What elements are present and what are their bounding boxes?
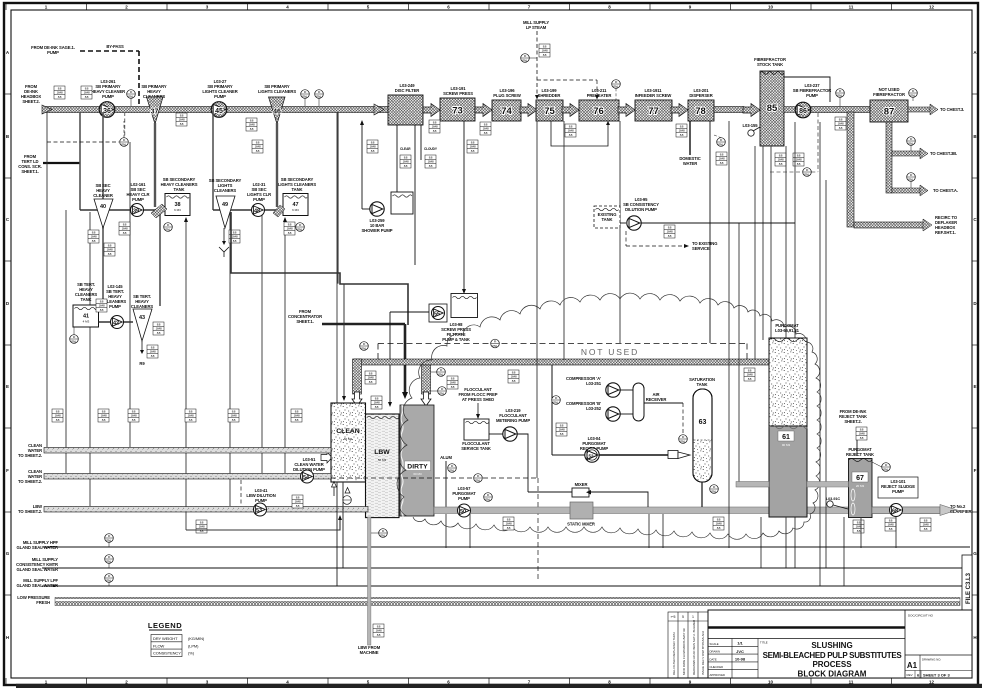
gauge LS tank47 xyxy=(296,223,305,232)
bottom scan bar xyxy=(16,684,982,688)
svg-text:CLEANERS: CLEANERS xyxy=(214,188,237,193)
svg-text:10: 10 xyxy=(768,5,774,10)
svg-text:SERVICE: SERVICE xyxy=(692,246,710,251)
svg-text:JVC: JVC xyxy=(736,649,744,654)
svg-text:68: 68 xyxy=(892,509,898,515)
svg-text:45: 45 xyxy=(215,108,223,115)
svg-text:METERING PUMP: METERING PUMP xyxy=(496,418,530,423)
svg-text:STATIC MIXER: STATIC MIXER xyxy=(567,522,595,527)
svg-text:TO CHEST.A.: TO CHEST.A. xyxy=(933,188,958,193)
svg-text:DIRTY: DIRTY xyxy=(407,464,428,471)
svg-text:75: 75 xyxy=(544,106,555,117)
wire pump 55 suction xyxy=(390,311,429,313)
svg-text:PUMP & TANK: PUMP & TANK xyxy=(442,337,470,342)
svg-text:50 M3: 50 M3 xyxy=(378,458,387,462)
svg-text:L03-155: L03-155 xyxy=(743,123,759,128)
RIGHT xyxy=(397,57,971,586)
svg-text:L03-91C: L03-91C xyxy=(826,497,840,501)
svg-text:LBW: LBW xyxy=(374,449,390,456)
svg-text:L03-251: L03-251 xyxy=(586,381,602,386)
gauge LS tank38 xyxy=(164,223,173,232)
svg-text:TANK: TANK xyxy=(81,297,92,302)
wire 78 to stock tank xyxy=(714,107,744,113)
svg-text:REJECT TANK: REJECT TANK xyxy=(846,452,874,457)
svg-text:TANK: TANK xyxy=(292,187,303,192)
wire vertical drops from main line xyxy=(80,112,277,306)
MIDDLE xyxy=(231,112,940,582)
wire arrow into CLEAN left xyxy=(321,452,332,463)
svg-text:63: 63 xyxy=(699,419,707,426)
gauge HS above band xyxy=(360,342,369,351)
svg-text:SERVICE TANK: SERVICE TANK xyxy=(461,446,491,451)
svg-text:PUMP: PUMP xyxy=(132,197,144,202)
svg-text:↩5: ↩5 xyxy=(671,615,676,619)
svg-text:53: 53 xyxy=(256,508,262,514)
data boxes cleaners xyxy=(88,230,99,243)
wire hatched drop to CLEAN xyxy=(353,359,362,394)
svg-text:G: G xyxy=(973,551,977,556)
svg-text:11: 11 xyxy=(849,5,854,10)
svg-text:1/1: 1/1 xyxy=(737,641,743,646)
wire gray stub 61 to 67 xyxy=(807,482,849,488)
svg-text:60 M3: 60 M3 xyxy=(413,472,422,476)
pump L03-259 10 BAR SHOWER PUMP xyxy=(370,202,384,216)
label box L03-101 REJECT SLUDGE PUMP xyxy=(878,477,918,498)
svg-text:6 M3: 6 M3 xyxy=(174,208,181,212)
svg-text:LIGHTS CLEANERS: LIGHTS CLEANERS xyxy=(258,89,296,94)
wire 87 drop and branches xyxy=(886,122,892,193)
svg-text:SHREDDER: SHREDDER xyxy=(538,93,561,98)
svg-text:85: 85 xyxy=(767,103,778,114)
svg-text:TO SHEET.2.: TO SHEET.2. xyxy=(18,453,42,458)
svg-text:40: 40 xyxy=(100,204,106,210)
svg-text:PUMP: PUMP xyxy=(109,304,121,309)
tank shower pump suction xyxy=(391,192,413,214)
svg-text:CLEANER: CLEANER xyxy=(93,193,113,198)
svg-text:DILUTION PUMP: DILUTION PUMP xyxy=(625,207,657,212)
svg-text:78: 78 xyxy=(695,106,706,117)
svg-text:L03-65,91,81: L03-65,91,81 xyxy=(775,328,799,333)
pump 68 xyxy=(890,504,903,517)
svg-text:67: 67 xyxy=(856,475,864,482)
svg-text:REF.SHT.1.: REF.SHT.1. xyxy=(935,230,956,235)
svg-text:11: 11 xyxy=(849,680,854,685)
wire up arrows into CLEAN bottom xyxy=(332,482,337,488)
gauge PI xyxy=(127,90,136,99)
tank EXISTING TANK xyxy=(594,206,620,228)
LBW from machine line xyxy=(368,517,371,645)
svg-text:FLOW: FLOW xyxy=(153,643,164,648)
svg-text:PUMP: PUMP xyxy=(47,50,59,55)
svg-text:DRAWN: DRAWN xyxy=(710,650,720,654)
gauge disperser xyxy=(717,138,726,147)
wire pump36 drain dashed xyxy=(47,141,119,143)
TITLEBLOCK xyxy=(668,610,972,679)
wire arrow 77-78 xyxy=(671,104,688,117)
svg-text:GLAND SEAL WATER: GLAND SEAL WATER xyxy=(16,583,58,588)
svg-text:RECEIVER: RECEIVER xyxy=(646,397,667,402)
svg-text:LP STEAM: LP STEAM xyxy=(526,25,547,30)
svg-text:AT PRESS SHED: AT PRESS SHED xyxy=(462,397,494,402)
svg-text:CLOUDY: CLOUDY xyxy=(424,147,438,151)
MAINROW xyxy=(21,20,760,166)
tank filtrate xyxy=(451,294,478,318)
svg-text:A1: A1 xyxy=(907,661,918,670)
wire arrow 74-75 xyxy=(520,104,537,117)
svg-text:SHOWER PUMP: SHOWER PUMP xyxy=(361,228,392,233)
wire hatched drop to DIRTY xyxy=(422,365,431,394)
LBW FROM MACHINE xyxy=(373,624,384,637)
svg-text:R9: R9 xyxy=(139,361,145,366)
tank LBW xyxy=(366,414,400,518)
svg-text:(LPM): (LPM) xyxy=(188,643,199,648)
svg-text:PUMP: PUMP xyxy=(253,197,265,202)
svg-text:37: 37 xyxy=(151,109,159,116)
wire return arrow into tank 38 xyxy=(184,217,188,222)
svg-text:F: F xyxy=(6,468,9,473)
svg-text:LEGEND: LEGEND xyxy=(148,621,182,630)
svg-text:6 M3: 6 M3 xyxy=(292,208,299,212)
cloud boundary xyxy=(397,293,821,539)
wire dashed sample line xyxy=(331,477,538,479)
svg-text:76: 76 xyxy=(593,106,604,117)
wire hatched jog into tank 47 xyxy=(273,205,285,217)
svg-text:TANK: TANK xyxy=(697,382,708,387)
svg-text:42: 42 xyxy=(113,321,119,327)
wire arrow 73-74 xyxy=(475,104,492,117)
svg-text:43: 43 xyxy=(139,315,145,321)
svg-text:FIBREFRACTOR: FIBREFRACTOR xyxy=(873,92,905,97)
svg-text:MIXER: MIXER xyxy=(575,482,588,487)
svg-text:MACHINE: MACHINE xyxy=(360,650,379,655)
svg-text:20 M3: 20 M3 xyxy=(856,484,865,488)
wire verticals below tanks xyxy=(336,482,338,586)
svg-text:PREHEATER: PREHEATER xyxy=(587,93,612,98)
svg-text:APPROVED: APPROVED xyxy=(710,673,726,677)
gauges flocculant area xyxy=(437,368,446,377)
svg-text:52: 52 xyxy=(588,454,594,459)
svg-text:77: 77 xyxy=(648,106,659,117)
svg-text:73: 73 xyxy=(452,106,463,117)
wire gray stub into purgomat xyxy=(736,482,769,488)
svg-text:12: 12 xyxy=(929,5,935,10)
revision columns xyxy=(668,612,708,678)
FILE C3.L3 vertical xyxy=(962,555,972,611)
svg-text:74: 74 xyxy=(501,106,512,117)
svg-text:SCREW PRESS: SCREW PRESS xyxy=(443,91,473,96)
svg-text:SLUSHING: SLUSHING xyxy=(811,641,852,650)
gauge pair after 46 xyxy=(301,90,310,99)
tank FLOCCULANT SERVICE TANK xyxy=(464,419,489,440)
svg-text:CONSISTENCY: CONSISTENCY xyxy=(153,651,181,656)
svg-text:46: 46 xyxy=(273,109,281,116)
svg-text:5: 5 xyxy=(682,615,684,619)
svg-text:DEL FILTER REPLACED THRU: DEL FILTER REPLACED THRU xyxy=(672,632,676,675)
svg-text:TO SHEET.2.: TO SHEET.2. xyxy=(18,479,42,484)
wire screw press 73 drop to filtrate tank xyxy=(463,121,465,291)
static mixer xyxy=(570,502,593,519)
svg-text:61: 61 xyxy=(782,434,790,441)
svg-text:PUMP: PUMP xyxy=(214,94,226,99)
svg-text:BY-PASS: BY-PASS xyxy=(106,44,124,49)
svg-text:55: 55 xyxy=(434,312,440,318)
svg-text:G: G xyxy=(6,551,10,556)
pump L03-98 screw press filtrate (55) xyxy=(429,304,447,322)
svg-text:10: 10 xyxy=(768,680,774,685)
svg-text:PUMP: PUMP xyxy=(255,498,267,503)
svg-text:PUMP: PUMP xyxy=(806,93,818,98)
svg-text:MOD DWG FLOW MODS /MAY 99: MOD DWG FLOW MODS /MAY 99 xyxy=(682,628,686,675)
wire TO EXISTING SERVICE dashed xyxy=(625,231,627,246)
svg-text:FILE C3.L3: FILE C3.L3 xyxy=(966,572,972,604)
wire hatched distribution band xyxy=(354,359,770,365)
svg-text:4 M3: 4 M3 xyxy=(83,320,90,324)
svg-text:CHECKED: CHECKED xyxy=(710,665,724,669)
BOTTOM xyxy=(16,299,972,657)
wire secondary lights row xyxy=(213,209,283,211)
svg-text:12: 12 xyxy=(929,680,935,685)
svg-text:DRAWING NO.: DRAWING NO. xyxy=(922,658,941,662)
drain below 49 xyxy=(223,228,225,243)
svg-text:50: 50 xyxy=(460,509,466,515)
svg-text:CLARIFIER: CLARIFIER xyxy=(950,509,972,514)
svg-text:ISSUE DEL'V DSP BYPASS ADJ: ISSUE DEL'V DSP BYPASS ADJ xyxy=(701,630,705,675)
svg-text:SHEET.2.: SHEET.2. xyxy=(844,419,861,424)
wire recirc to deflaker xyxy=(854,222,924,228)
tank DIRTY xyxy=(400,405,434,516)
svg-text:TANK: TANK xyxy=(174,187,185,192)
svg-text:PUMP: PUMP xyxy=(892,489,904,494)
tank CLEAN xyxy=(331,403,366,482)
svg-text:SHEET.2.: SHEET.2. xyxy=(22,99,39,104)
wire thin feeds into CLEAN top xyxy=(343,284,345,399)
svg-text:86: 86 xyxy=(799,108,807,115)
svg-text:60 M3: 60 M3 xyxy=(344,437,353,441)
svg-text:10-98: 10-98 xyxy=(735,657,746,662)
data boxes near tanks xyxy=(365,371,376,384)
wire dashed drain 85 xyxy=(770,171,803,173)
svg-text:GLAND SEAL WATER: GLAND SEAL WATER xyxy=(16,545,58,550)
svg-text:DISPERSER: DISPERSER xyxy=(689,93,712,98)
svg-text:F: F xyxy=(974,468,977,473)
svg-text:E: E xyxy=(6,384,9,389)
svg-text:CLEAR: CLEAR xyxy=(400,147,411,151)
svg-text:PROCESS: PROCESS xyxy=(812,660,852,669)
svg-text:39: 39 xyxy=(133,209,139,215)
svg-text:ALUM: ALUM xyxy=(440,455,452,460)
svg-text:TO CHEST.3.: TO CHEST.3. xyxy=(940,107,964,112)
wire shredder bottom loop to preheater xyxy=(551,121,608,146)
svg-text:SHEET.1.: SHEET.1. xyxy=(21,169,38,174)
wire hatched jog into tank 38 xyxy=(151,204,167,218)
wire below 43 to R9 xyxy=(141,341,143,352)
svg-text:NOT USED: NOT USED xyxy=(581,347,639,357)
svg-text:87: 87 xyxy=(884,107,895,118)
arrow into disc filter xyxy=(374,104,384,115)
data boxes header row xyxy=(52,409,63,422)
svg-text:E: E xyxy=(973,384,976,389)
gauge preheater TS xyxy=(612,80,621,89)
svg-text:(%): (%) xyxy=(188,651,195,656)
wire main pulp flow line xyxy=(45,107,388,113)
svg-text:SEMI-BLEACHED PULP SUBSTITUTES: SEMI-BLEACHED PULP SUBSTITUTES xyxy=(763,651,903,660)
svg-text:TANK: TANK xyxy=(602,217,613,222)
svg-text:(KG/MIN): (KG/MIN) xyxy=(188,636,205,641)
wire long verticals below stock tank xyxy=(537,121,826,586)
svg-text:FRESH: FRESH xyxy=(36,600,50,605)
svg-text:INFEEDER SCREW: INFEEDER SCREW xyxy=(635,93,672,98)
wire arrow 75-76 xyxy=(562,104,579,117)
wire arrow disc filter to 73 xyxy=(423,104,440,117)
wire sat tank bottom xyxy=(701,482,703,507)
svg-text:SCALE: SCALE xyxy=(710,642,719,646)
CLEANERS xyxy=(18,112,478,586)
svg-text:SHEET 3 OF 3: SHEET 3 OF 3 xyxy=(923,672,950,677)
svg-text:BLOCK DIAGRAM: BLOCK DIAGRAM xyxy=(798,670,867,679)
wire gray pipe to clarifier xyxy=(872,507,940,514)
wire tank top recirc xyxy=(784,77,830,102)
title block internal lines xyxy=(708,626,905,629)
wire secondary heavy row xyxy=(80,209,165,211)
svg-text:WATER: WATER xyxy=(683,161,697,166)
svg-text:PUMP: PUMP xyxy=(102,94,114,99)
svg-text:49: 49 xyxy=(222,202,228,208)
svg-text:DRY WEIGHT: DRY WEIGHT xyxy=(153,636,178,641)
svg-text:L03-252: L03-252 xyxy=(586,406,602,411)
svg-text:REDRAWN ACAD WAS SHT.2. BULMER: REDRAWN ACAD WAS SHT.2. BULMER xyxy=(692,619,696,675)
svg-text:TITLE: TITLE xyxy=(760,641,768,645)
wire main gray pipe DIRTY to clarifier xyxy=(434,507,940,514)
data boxes along main row xyxy=(54,86,65,99)
svg-text:DATE: DATE xyxy=(710,657,717,661)
wire TO CHEST.3 xyxy=(908,107,930,112)
svg-text:36: 36 xyxy=(103,108,111,115)
svg-text:CLEANERS: CLEANERS xyxy=(131,304,154,309)
svg-text:SHEET.1.: SHEET.1. xyxy=(296,319,313,324)
air receiver xyxy=(633,383,644,421)
svg-text:TO SHEET.2.: TO SHEET.2. xyxy=(18,509,42,514)
svg-text:DISC FILTER: DISC FILTER xyxy=(395,88,419,93)
wire NOT USED dashed boundary xyxy=(378,343,747,345)
wire LBW bottom connector xyxy=(186,518,340,530)
wire arrow 76-77 xyxy=(618,104,635,117)
svg-text:PLUG SCREW: PLUG SCREW xyxy=(493,93,521,98)
wire hatched vertical to recirc xyxy=(847,112,854,227)
wire 86 to 87 hatched xyxy=(811,107,870,113)
svg-text:STOCK TANK: STOCK TANK xyxy=(757,62,783,67)
svg-text:48: 48 xyxy=(254,209,260,215)
svg-text:TO CHEST.3B.: TO CHEST.3B. xyxy=(930,151,957,156)
wire staircase routing lines xyxy=(231,212,408,325)
svg-text:54: 54 xyxy=(303,475,310,481)
svg-text:REV: REV xyxy=(907,673,913,677)
svg-text:DOC/CIRCUIT NO: DOC/CIRCUIT NO xyxy=(908,614,934,618)
svg-text:CLEAN: CLEAN xyxy=(336,428,360,435)
svg-text:PUMP: PUMP xyxy=(458,496,470,501)
svg-text:H: H xyxy=(973,635,976,640)
svg-text:1: 1 xyxy=(692,615,694,619)
svg-text:H: H xyxy=(6,635,9,640)
svg-text:90 M3: 90 M3 xyxy=(782,443,791,447)
